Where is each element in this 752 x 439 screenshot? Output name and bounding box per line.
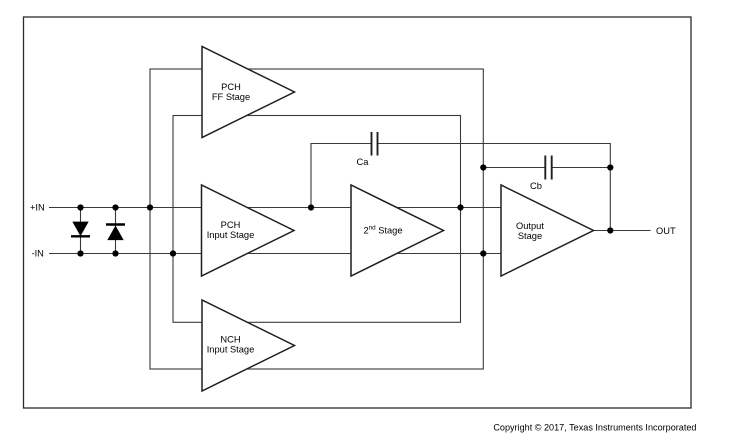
- svg-text:FF Stage: FF Stage: [212, 92, 250, 102]
- svg-text:PCH: PCH: [221, 82, 241, 92]
- wire -IN horizontal: [49, 253, 505, 255]
- svg-text:Input Stage: Input Stage: [207, 344, 255, 354]
- svg-text:PCH: PCH: [221, 220, 241, 230]
- wire Ca right to output node: [378, 144, 611, 231]
- svg-text:Cb: Cb: [530, 181, 542, 191]
- capacitor Cb: [530, 156, 552, 192]
- wire diode D1 vertical: [80, 208, 82, 254]
- wire Cb left segment: [483, 167, 545, 169]
- svg-text:Output: Output: [516, 221, 544, 231]
- svg-text:+IN: +IN: [30, 203, 45, 213]
- wire diode D2 vertical: [115, 208, 117, 254]
- node dot -IN / D2: [112, 250, 118, 256]
- node dot 2nd stage out / inner box: [457, 204, 463, 210]
- node dot +IN / Ca branch: [308, 204, 314, 210]
- svg-text:OUT: OUT: [656, 226, 676, 236]
- wire OUT: [594, 230, 651, 232]
- node dot -IN line / outer net box: [480, 250, 486, 256]
- node dot Cb right: [607, 164, 613, 170]
- node dot -IN / inner box: [170, 250, 176, 256]
- op-amp PCH Input Stage: [202, 185, 295, 276]
- op-amp 2nd Stage: [351, 185, 444, 276]
- wire Ca branch up from +IN net: [311, 144, 372, 208]
- node +IN net box (outer routing rectangle): [150, 69, 483, 369]
- node dot output: [607, 227, 613, 233]
- svg-text:Copyright © 2017, Texas Instru: Copyright © 2017, Texas Instruments Inco…: [493, 423, 696, 433]
- wire +IN horizontal: [49, 207, 505, 209]
- node dot -IN / D1: [77, 250, 83, 256]
- svg-text:Input Stage: Input Stage: [207, 230, 255, 240]
- node -IN net box (inner routing rectangle): [173, 116, 461, 323]
- svg-text:Ca: Ca: [357, 157, 370, 167]
- wire Cb right segment: [552, 167, 611, 169]
- svg-text:Stage: Stage: [518, 231, 542, 241]
- outer border frame: [24, 17, 692, 408]
- op-amp Output Stage: [501, 185, 594, 276]
- capacitor Ca: [357, 132, 378, 167]
- svg-text:-IN: -IN: [32, 249, 44, 259]
- node dot +IN / D2: [112, 204, 118, 210]
- node dot Cb left: [480, 164, 486, 170]
- diode D2 (anode on -IN, cathode on +IN): [106, 225, 125, 240]
- op-amp NCH Input Stage: [202, 300, 295, 391]
- diode D1 (anode on +IN, cathode on -IN): [71, 222, 90, 236]
- node dot +IN / D1: [77, 204, 83, 210]
- op-amp PCH FF Stage: [202, 47, 295, 138]
- node dot +IN / net box: [147, 204, 153, 210]
- svg-text:NCH: NCH: [220, 334, 240, 344]
